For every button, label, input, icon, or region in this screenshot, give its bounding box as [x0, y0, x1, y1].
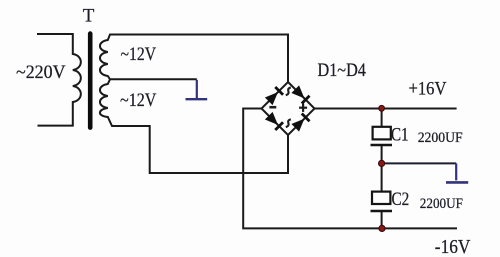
svg-text:C1: C1 [391, 126, 409, 146]
svg-text:+16V: +16V [409, 79, 448, 99]
svg-text:~12V: ~12V [121, 44, 157, 65]
svg-text:T: T [83, 5, 95, 26]
svg-text:-16V: -16V [435, 237, 471, 257]
svg-text:2200UF: 2200UF [418, 130, 463, 146]
svg-text:D1~D4: D1~D4 [318, 60, 367, 81]
svg-text:2200UF: 2200UF [420, 196, 463, 212]
svg-text:~12V: ~12V [120, 90, 157, 111]
svg-text:C2: C2 [392, 190, 410, 210]
svg-text:~220V: ~220V [16, 62, 66, 83]
